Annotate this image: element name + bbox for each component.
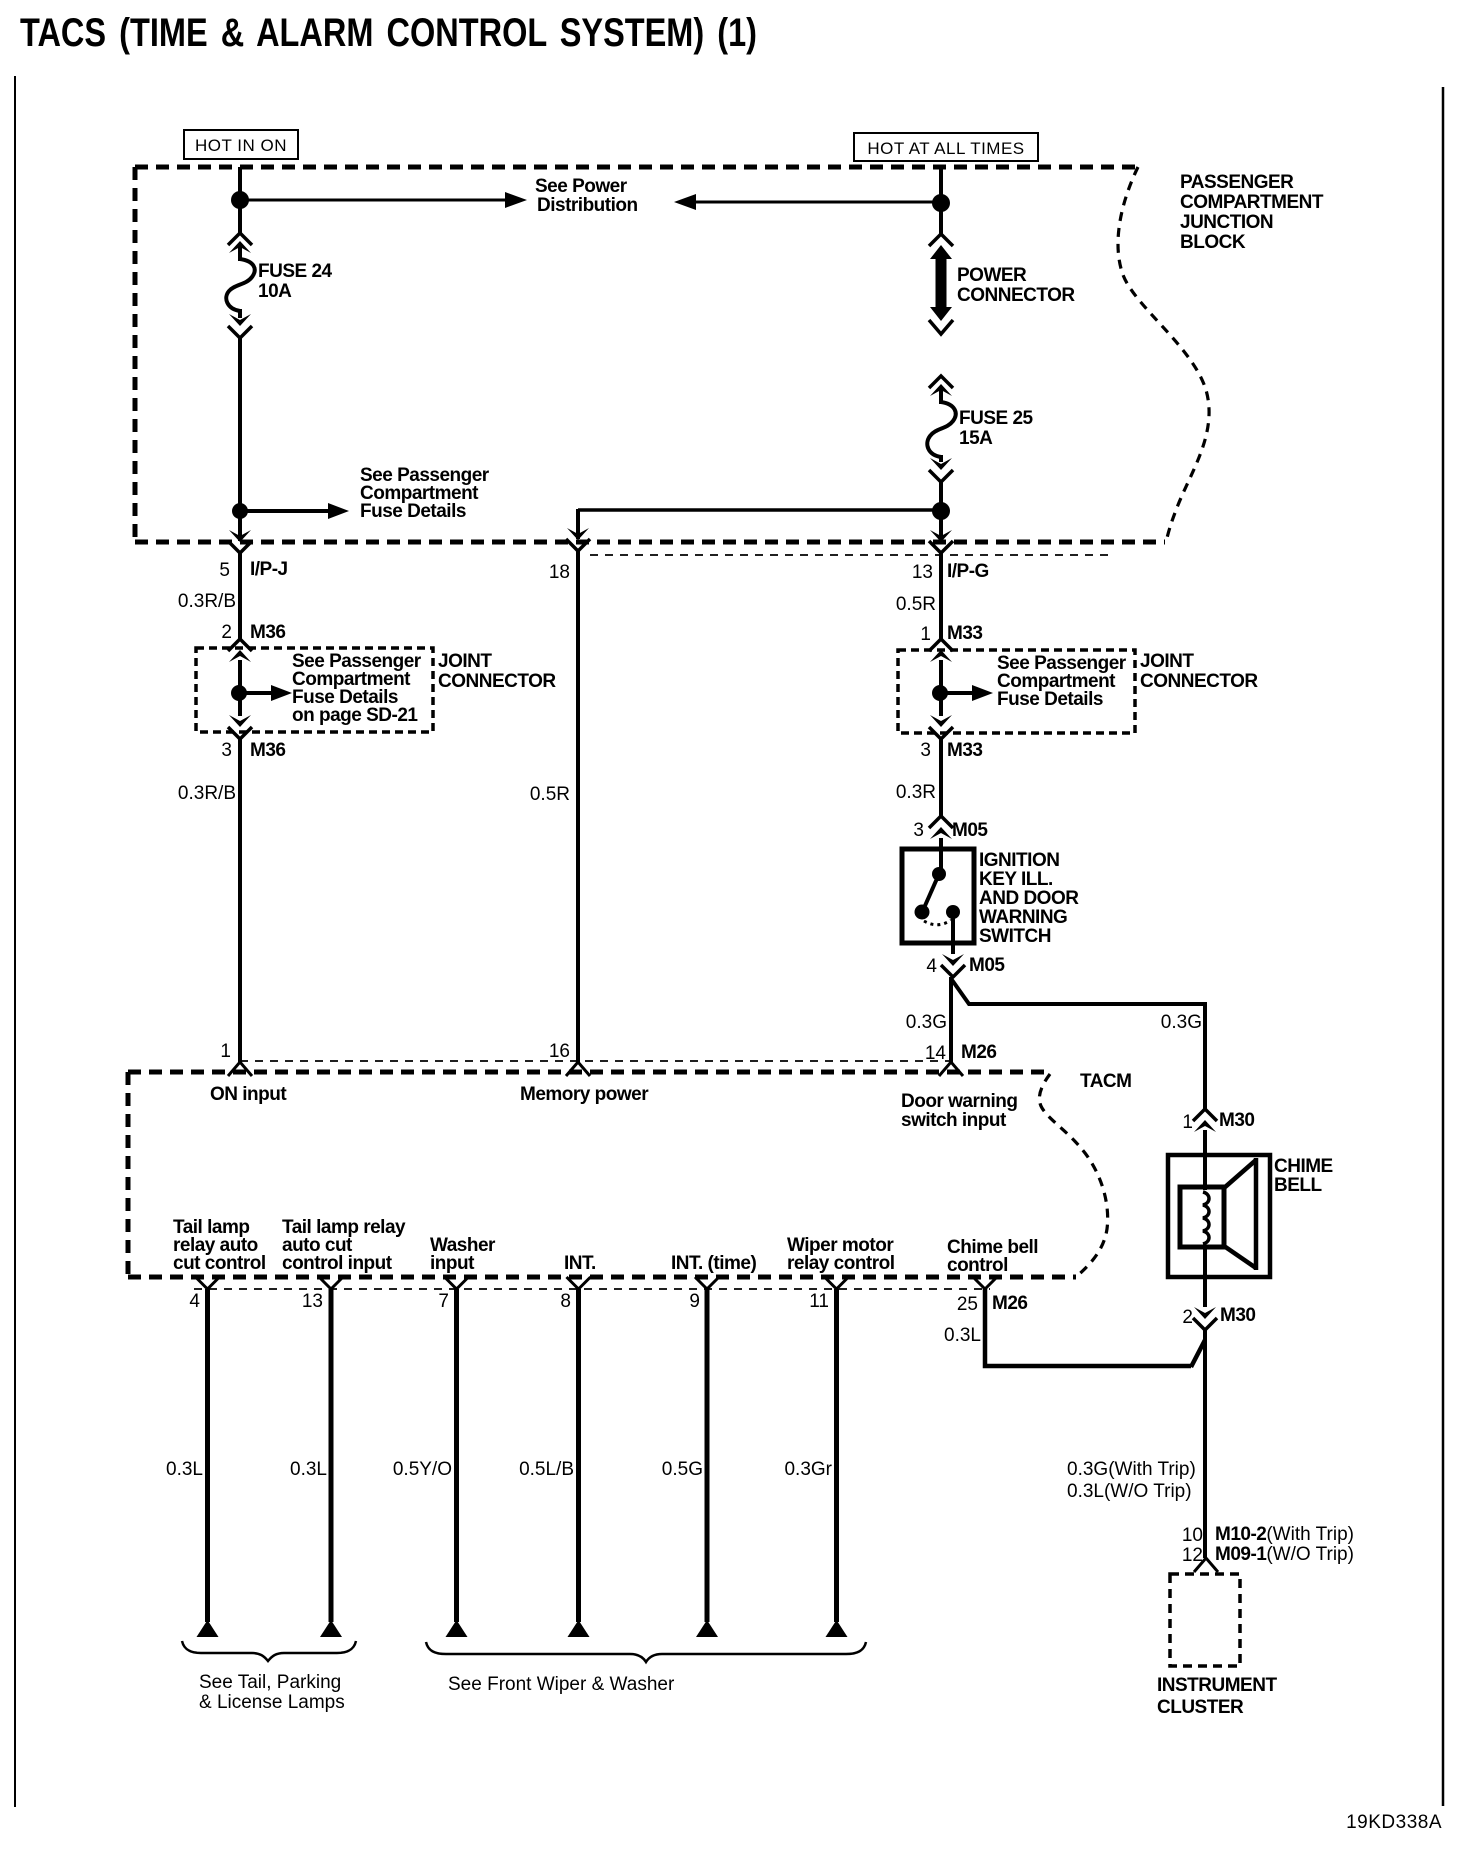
wire: arrow to See Passenger Compartment Fuse Details (top) (246, 509, 331, 513)
svg-text:I/P-J: I/P-J (250, 559, 288, 580)
svg-text:Fuse Details: Fuse Details (997, 689, 1103, 710)
svg-text:POWER: POWER (957, 265, 1027, 286)
svg-text:11: 11 (809, 1291, 829, 1312)
wire: right hot-at-all-times vertical (939, 167, 943, 234)
svg-text:25: 25 (957, 1294, 978, 1315)
svg-text:KEY ILL.: KEY ILL. (979, 869, 1053, 890)
wire: pin 9 drop (705, 1289, 710, 1622)
passenger compartment junction block dashed box (135, 167, 1165, 542)
svg-text:0.3R/B: 0.3R/B (178, 783, 236, 804)
wire labels 0.3G(With Trip) 0.3L(W/O Trip) (1067, 1459, 1196, 1502)
svg-text:CONNECTOR: CONNECTOR (957, 285, 1075, 306)
svg-text:0.3R/B: 0.3R/B (178, 591, 236, 612)
svg-text:WARNING: WARNING (979, 907, 1067, 928)
svg-text:CONNECTOR: CONNECTOR (1140, 671, 1258, 692)
svg-text:9: 9 (689, 1291, 700, 1312)
svg-text:M26: M26 (992, 1293, 1027, 1314)
joint connector M36 dashed box (196, 648, 433, 732)
svg-text:M10-2(With Trip): M10-2(With Trip) (1215, 1524, 1354, 1545)
wire: chime bell to pin 2 M30 (1203, 1247, 1207, 1307)
junction block bubble curve (1118, 167, 1209, 542)
svg-text:HOT AT ALL TIMES: HOT AT ALL TIMES (867, 139, 1024, 158)
svg-text:IGNITION: IGNITION (979, 850, 1059, 871)
svg-text:& License Lamps: & License Lamps (199, 1692, 345, 1713)
svg-text:13: 13 (302, 1291, 323, 1312)
svg-text:INT. (time): INT. (time) (671, 1253, 756, 1274)
ignition key ill. and door warning switch (902, 849, 974, 943)
svg-text:0.5R: 0.5R (896, 594, 936, 615)
wire: memory power vertical top (576, 509, 580, 539)
connector pin 9 (INT. time) (695, 1277, 719, 1289)
connector pin 5 I/P-J (229, 530, 251, 542)
wire: into ignition switch (939, 838, 943, 874)
svg-text:0.3G(With Trip): 0.3G(With Trip) (1067, 1459, 1196, 1480)
svg-text:CLUSTER: CLUSTER (1157, 1697, 1244, 1718)
connector labels M10-2(With Trip) M09-1(W/O Trip) (1215, 1524, 1354, 1565)
node: M36 joint connector junction (231, 685, 247, 701)
node: right lower junction (932, 502, 950, 520)
svg-text:4: 4 (926, 956, 937, 977)
svg-text:M30: M30 (1219, 1110, 1254, 1131)
TACM bubble curve (1039, 1074, 1107, 1277)
TACM bottom pin labels (173, 1217, 1038, 1276)
wire: fuse25 to junction (939, 481, 943, 541)
svg-text:PASSENGER: PASSENGER (1180, 172, 1294, 193)
svg-text:CONNECTOR: CONNECTOR (438, 671, 556, 692)
svg-text:See Tail, Parking: See Tail, Parking (199, 1672, 341, 1693)
wire: pin4 M05 down to TACM pin 14 (949, 977, 953, 1062)
wire: right 0.3G vertical (1203, 1002, 1207, 1111)
svg-text:BELL: BELL (1274, 1175, 1323, 1196)
wire: pin 7 drop (454, 1289, 459, 1622)
label See Passenger Compartment Fuse Details on page SD-21 (292, 651, 422, 726)
svg-text:TACM: TACM (1080, 1071, 1131, 1092)
wire: pin 13 drop (329, 1289, 334, 1622)
joint connector M33 dashed box (898, 650, 1135, 733)
label INSTRUMENT CLUSTER (1157, 1675, 1277, 1718)
svg-text:3: 3 (221, 740, 232, 761)
wire: pin3 M36 down to TACM pin 1 (238, 739, 242, 1062)
connector pin 25 M26 (chime bell control) (973, 1277, 997, 1289)
wire: arrow (pointing left) from right wire to See Power Distribution (678, 201, 938, 204)
svg-text:cut control: cut control (173, 1253, 266, 1274)
svg-text:AND DOOR: AND DOOR (979, 888, 1079, 909)
wire: left hot-in-on vertical (top) (238, 167, 242, 234)
connector pin 8 (INT.) (567, 1277, 591, 1289)
wire: chime output down to instrument cluster (1203, 1330, 1207, 1558)
svg-text:Fuse Details: Fuse Details (360, 501, 466, 522)
svg-text:switch input: switch input (901, 1110, 1007, 1131)
label PASSENGER COMPARTMENT JUNCTION BLOCK (1180, 172, 1324, 253)
svg-text:INT.: INT. (564, 1253, 596, 1274)
brace: see front wiper washer (426, 1642, 866, 1662)
connector pin 4 (tail lamp relay auto cut control) (196, 1277, 220, 1289)
svg-text:0.3L: 0.3L (166, 1459, 203, 1480)
svg-text:4: 4 (189, 1291, 200, 1312)
wire: ignition switch to pin 4 M05 (951, 912, 955, 954)
svg-text:0.3R: 0.3R (896, 782, 936, 803)
thin dashed connector row (M26 bottom) (194, 1288, 990, 1290)
svg-text:0.5G: 0.5G (662, 1459, 703, 1480)
wire: pin18 down to TACM pin 16 (576, 551, 580, 1062)
connector pin 13 (tail lamp relay auto cut control input) (319, 1277, 343, 1289)
brace: see tail parking (182, 1641, 356, 1661)
svg-text:JOINT: JOINT (1140, 651, 1194, 672)
svg-text:M36: M36 (250, 622, 285, 643)
node: right power junction (932, 194, 950, 212)
TACM dashed box (128, 1072, 1076, 1277)
fuse F24 (226, 233, 254, 338)
connector pin 18 (567, 528, 589, 540)
svg-text:8: 8 (560, 1291, 571, 1312)
wire: inside joint connector M33 (939, 660, 943, 716)
svg-text:HOT IN ON: HOT IN ON (195, 136, 287, 155)
svg-text:12: 12 (1182, 1545, 1203, 1566)
label See Passenger Compartment Fuse Details (360, 465, 490, 522)
svg-text:0.5R: 0.5R (530, 784, 570, 805)
svg-text:3: 3 (913, 820, 924, 841)
label JOINT CONNECTOR (right) (1140, 651, 1258, 692)
svg-text:1: 1 (220, 1041, 231, 1062)
svg-text:FUSE 25: FUSE 25 (959, 408, 1034, 429)
connector pin 7 (washer input) (445, 1277, 469, 1289)
svg-text:0.5Y/O: 0.5Y/O (393, 1459, 452, 1480)
svg-text:Memory power: Memory power (520, 1084, 649, 1105)
svg-text:1: 1 (1182, 1112, 1193, 1133)
node: left power junction (231, 191, 249, 209)
svg-text:control: control (947, 1255, 1008, 1276)
wire: branch diagonal to 0.3G right (952, 980, 1205, 1004)
wire: pin5 to joint connector M36 (238, 552, 242, 641)
svg-text:M26: M26 (961, 1042, 996, 1063)
label See Tail, Parking & License Lamps (199, 1672, 345, 1713)
HOT AT ALL TIMES box (854, 133, 1038, 161)
thin dashed connector line (I/P row) (590, 554, 1110, 556)
svg-text:0.3G: 0.3G (906, 1012, 947, 1033)
wire: memory power horizontal (578, 508, 939, 512)
svg-text:JUNCTION: JUNCTION (1180, 212, 1273, 233)
svg-text:2: 2 (221, 622, 232, 643)
svg-text:0.5L/B: 0.5L/B (519, 1459, 574, 1480)
power connector symbol (929, 234, 953, 246)
svg-text:5: 5 (219, 560, 230, 581)
svg-text:Distribution: Distribution (537, 195, 638, 216)
svg-text:M30: M30 (1220, 1305, 1255, 1326)
svg-text:TACS (TIME & ALARM CONTROL SYS: TACS (TIME & ALARM CONTROL SYSTEM) (1) (20, 11, 757, 55)
label FUSE 24 10A (258, 261, 333, 302)
wire: left wire fuse to bottom of junction block (238, 337, 242, 541)
label POWER CONNECTOR (957, 265, 1075, 306)
svg-text:input: input (430, 1253, 475, 1274)
left page border (14, 76, 16, 1807)
svg-text:18: 18 (549, 562, 570, 583)
label CHIME BELL (1274, 1156, 1333, 1196)
svg-text:I/P-G: I/P-G (947, 561, 989, 582)
right page border (1442, 87, 1445, 1806)
label FUSE 25 15A (959, 408, 1034, 449)
svg-text:ON input: ON input (210, 1084, 287, 1105)
node: left fuse-details junction (232, 503, 248, 519)
svg-text:See Power: See Power (535, 176, 628, 197)
svg-text:1: 1 (920, 624, 931, 645)
wire: diagonal join to chime wire (1191, 1340, 1205, 1367)
svg-text:10: 10 (1182, 1525, 1203, 1546)
svg-text:on page SD-21: on page SD-21 (292, 705, 418, 726)
svg-text:M36: M36 (250, 740, 285, 761)
svg-text:control input: control input (282, 1253, 393, 1274)
svg-text:10A: 10A (258, 281, 292, 302)
svg-text:BLOCK: BLOCK (1180, 232, 1246, 253)
svg-text:15A: 15A (959, 428, 993, 449)
svg-text:0.3L: 0.3L (944, 1325, 981, 1346)
svg-text:JOINT: JOINT (438, 651, 492, 672)
instrument cluster dashed box (1170, 1574, 1240, 1666)
svg-text:19KD338A: 19KD338A (1346, 1812, 1442, 1833)
node: M33 joint connector junction (932, 685, 948, 701)
svg-text:See Front Wiper & Washer: See Front Wiper & Washer (448, 1674, 675, 1695)
connector pin 3 M33 (930, 715, 952, 727)
wire: pin13 to joint connector M33 (939, 552, 943, 641)
svg-text:relay control: relay control (787, 1253, 895, 1274)
fuse F25 (927, 376, 955, 482)
svg-text:3: 3 (920, 740, 931, 761)
label See Passenger Compartment Fuse Details (right) (997, 653, 1127, 710)
thin dashed connector row (M26 top) (240, 1060, 955, 1062)
svg-text:CHIME: CHIME (1274, 1156, 1333, 1177)
label JOINT CONNECTOR (left) (438, 651, 556, 692)
svg-text:SWITCH: SWITCH (979, 926, 1051, 947)
svg-text:INSTRUMENT: INSTRUMENT (1157, 1675, 1277, 1696)
label Door warning switch input (901, 1091, 1017, 1131)
wire: pin 8 drop (576, 1289, 581, 1622)
svg-text:COMPARTMENT: COMPARTMENT (1180, 192, 1324, 213)
HOT IN ON box (184, 130, 298, 159)
wire: pin1 M30 into chime bell (1203, 1130, 1207, 1190)
connector pin 11 (wiper motor relay control) (825, 1277, 849, 1289)
svg-text:0.3Gr: 0.3Gr (784, 1459, 832, 1480)
svg-text:Door warning: Door warning (901, 1091, 1017, 1112)
wire: arrow to See Power Distribution (246, 199, 508, 202)
wire: pin3 M33 down to ignition switch (939, 739, 943, 818)
svg-text:16: 16 (549, 1041, 570, 1062)
svg-text:M33: M33 (947, 740, 982, 761)
wire: inside joint connector M36 (238, 660, 242, 716)
svg-text:13: 13 (912, 562, 933, 583)
svg-text:2: 2 (1182, 1307, 1193, 1328)
svg-text:M05: M05 (952, 820, 988, 841)
svg-text:0.3L(W/O Trip): 0.3L(W/O Trip) (1067, 1481, 1192, 1502)
connector pin 3 M36 (229, 715, 251, 727)
label IGNITION KEY ILL. AND DOOR WARNING SWITCH (979, 850, 1079, 947)
label See Power Distribution (535, 176, 638, 216)
wire: pin 25 down and right to chime bell (985, 1289, 1191, 1366)
wire: pin 4 drop (205, 1289, 210, 1622)
svg-text:FUSE 24: FUSE 24 (258, 261, 333, 282)
svg-text:M05: M05 (969, 955, 1005, 976)
svg-text:0.3G: 0.3G (1161, 1012, 1202, 1033)
connector pin 13 I/P-G (930, 530, 952, 542)
pin labels 10 / 12 (1182, 1525, 1203, 1566)
svg-text:M09-1(W/O Trip): M09-1(W/O Trip) (1215, 1544, 1354, 1565)
svg-text:7: 7 (438, 1291, 449, 1312)
chime bell (1168, 1155, 1270, 1277)
wire: arrow to fuse details (right) (946, 691, 975, 695)
wire: pin 11 drop (834, 1289, 839, 1622)
svg-text:0.3L: 0.3L (290, 1459, 327, 1480)
wire: arrow to fuse details SD-21 (245, 691, 274, 695)
svg-text:M33: M33 (947, 623, 982, 644)
